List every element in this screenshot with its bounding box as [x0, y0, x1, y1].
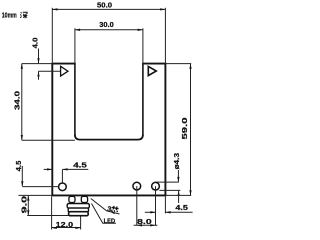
hole left vertical extension to dim line — [61, 169, 63, 183]
dim 4.0 down arrow — [37, 58, 39, 63]
dim 4.5 right: right-pointing arrow + tail — [145, 211, 156, 213]
dim 50.0 right extension line — [164, 8, 166, 64]
dim 30.0 right extension line — [142, 28, 144, 63]
dim 59.0 top arrow — [189, 64, 191, 69]
mounting hole left circle — [59, 183, 67, 191]
svg-text:ø4.3: ø4.3 — [174, 153, 181, 170]
svg-text:4.5: 4.5 — [175, 205, 188, 212]
dim 50.0 left arrow — [52, 8, 57, 10]
svg-text:4.5: 4.5 — [73, 163, 87, 170]
optical axis line into left triangle — [39, 70, 61, 72]
dim 34.0 line — [21, 64, 23, 141]
3-core cable label (3 + CJK xin glyph) — [106, 204, 119, 215]
dim 30.0 right arrow — [138, 29, 143, 31]
optical axis marker left triangle — [61, 66, 68, 76]
dim 50.0 line — [52, 8, 165, 10]
dim 9.0 line — [27, 195, 29, 215]
svg-text:12.0: 12.0 — [56, 222, 74, 229]
dim 30.0 left extension line — [74, 28, 76, 63]
leader line to 3-core label — [91, 199, 120, 215]
leader line to LED label — [92, 204, 116, 224]
body bottom edge — [51, 194, 166, 196]
dim 9.0 down arrow — [27, 210, 29, 215]
dim 4.0 lower tail — [38, 71, 40, 80]
dim 8.0 left arrow — [137, 224, 142, 226]
hole left horizontal centerline — [22, 186, 58, 188]
svg-text:4.0: 4.0 — [33, 37, 40, 48]
cable gland band 1 — [67, 204, 89, 209]
dim 8.0 right arrow — [150, 224, 155, 226]
dim 4.5 left vertical upper tail — [21, 166, 23, 186]
dim 59.0 line — [190, 64, 192, 196]
dim 34.0 top arrow — [21, 64, 23, 69]
svg-text:30.0: 30.0 — [99, 22, 114, 29]
dim 34.0 bottom extension line — [22, 139, 75, 141]
cable gland band 3 — [69, 212, 89, 216]
dim 4.5 right: left-pointing arrow + tail — [165, 211, 192, 213]
svg-text:9.0: 9.0 — [22, 196, 29, 214]
dim 50.0 right arrow — [160, 8, 165, 10]
mounting hole B circle — [152, 182, 160, 190]
body left edge — [51, 64, 53, 196]
dim phi4.3 up arrow — [177, 191, 179, 196]
svg-text:10mm: 10mm — [2, 12, 17, 19]
dim 59.0 top extension line — [165, 63, 191, 65]
svg-text:50.0: 50.0 — [97, 3, 112, 10]
dim 34.0 bottom arrow — [21, 135, 23, 140]
svg-text:34.0: 34.0 — [15, 91, 22, 110]
dim 4.0 upper tail — [38, 49, 40, 64]
dim phi4.3 top tangent extension — [155, 181, 179, 183]
dim 4.5 right extension (body edge extended down) — [164, 196, 166, 213]
dim 4.5 left vertical down arrow — [21, 181, 23, 186]
cable gland screw eye left — [69, 196, 75, 202]
dim 30.0 left arrow — [75, 29, 80, 31]
dim 30.0 line — [75, 29, 143, 31]
slot bottom with rounded corners — [75, 135, 143, 140]
dim 34.0 top extension line — [22, 63, 53, 65]
dim 12.0 right extension (cable centerline) — [80, 216, 82, 230]
slot left wall — [74, 64, 76, 136]
svg-text:LED: LED — [104, 218, 116, 225]
dim 59.0 bottom arrow — [189, 190, 191, 195]
dim 4.5 left horizontal: right-pointing arrow + tail — [44, 168, 53, 170]
dim 4.5 left horizontal: left-pointing arrow + tail — [62, 168, 88, 170]
cable gland screw eye right — [81, 196, 87, 202]
dim 12.0 right arrow — [75, 227, 80, 229]
svg-text:59.0: 59.0 — [182, 117, 189, 139]
dim 12.0 line — [52, 227, 81, 229]
body bottom extension to left — [19, 194, 52, 196]
cable gland bottom extension to left — [27, 215, 68, 217]
dim phi4.3 bottom tangent extension — [159, 189, 180, 191]
svg-text:8.0: 8.0 — [137, 219, 152, 226]
hole B centerline — [155, 186, 157, 225]
body top edge left segment — [51, 63, 75, 65]
cable gland band 2 — [68, 208, 88, 212]
mounting hole A circle — [133, 182, 141, 190]
hole A centerline — [136, 186, 138, 226]
dim phi4.3 upper tail — [177, 170, 179, 182]
dim 4.0 up arrow — [37, 71, 39, 76]
note CJK shen (deep) glyph — [20, 12, 27, 18]
dim 59.0 bottom extension line — [165, 194, 191, 196]
dim 12.0 left arrow — [52, 227, 57, 229]
optical axis marker right triangle — [148, 66, 156, 75]
dim 12.0 left extension (body edge extended down) — [51, 197, 53, 230]
slot right wall — [142, 64, 144, 136]
dim 8.0 line — [134, 224, 158, 226]
dim phi4.3 down arrow — [177, 177, 179, 182]
dim phi4.3 lower tail — [178, 191, 180, 203]
dim 9.0 up arrow — [27, 195, 29, 200]
body right edge — [164, 64, 166, 196]
dim 50.0 left extension line — [51, 8, 53, 64]
body top edge right segment — [142, 63, 166, 65]
